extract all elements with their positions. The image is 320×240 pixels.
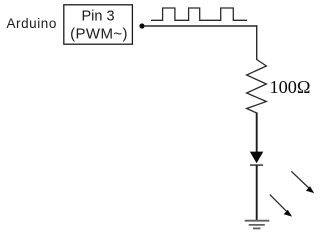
svg-text:(PWM~): (PWM~) bbox=[70, 26, 128, 43]
ground symbol line 3 bbox=[253, 227, 261, 229]
light emission arrow 2 bbox=[270, 195, 292, 217]
svg-text:Pin 3: Pin 3 bbox=[81, 9, 114, 25]
box Pin 3 (PWM~) bbox=[64, 5, 133, 44]
LED D1 anode triangle bbox=[250, 152, 263, 164]
wire resistor to LED bbox=[256, 113, 258, 153]
svg-text:Arduino: Arduino bbox=[7, 16, 57, 31]
resistor R 100 ohm zigzag bbox=[247, 60, 267, 114]
wire LED to ground bbox=[256, 165, 258, 221]
svg-text:100Ω: 100Ω bbox=[270, 77, 311, 97]
node junction dot bbox=[139, 23, 144, 28]
ground symbol line 1 bbox=[245, 220, 270, 222]
wire horizontal from node to corner bbox=[145, 25, 258, 27]
wire vertical corner to resistor bbox=[256, 25, 258, 60]
ground symbol line 2 bbox=[249, 224, 265, 226]
light emission arrow 1 bbox=[291, 171, 314, 193]
LED cathode bar bbox=[250, 164, 263, 166]
PWM square wave bbox=[151, 8, 247, 20]
